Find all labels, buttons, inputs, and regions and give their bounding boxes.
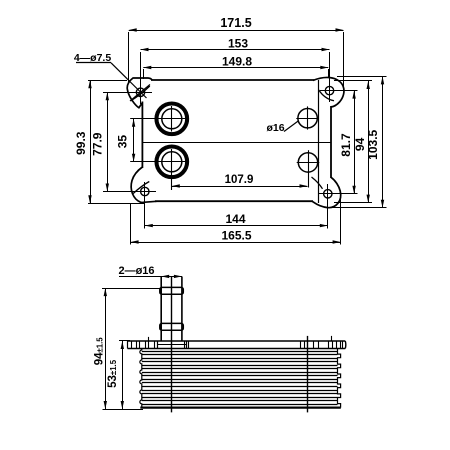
svg-text:149.8: 149.8 (222, 55, 252, 69)
svg-text:153: 153 (228, 37, 248, 51)
svg-text:77.9: 77.9 (90, 132, 104, 156)
svg-text:144: 144 (225, 212, 245, 226)
svg-text:107.9: 107.9 (225, 174, 254, 186)
svg-text:94: 94 (353, 137, 367, 151)
svg-text:35: 35 (115, 135, 129, 149)
svg-text:53±1.5: 53±1.5 (107, 359, 119, 388)
svg-text:165.5: 165.5 (221, 229, 251, 243)
svg-text:171.5: 171.5 (220, 16, 251, 30)
svg-text:81.7: 81.7 (339, 133, 353, 157)
svg-text:2—ø16: 2—ø16 (118, 265, 154, 277)
svg-text:ø16: ø16 (266, 122, 284, 134)
svg-text:103.5: 103.5 (366, 129, 380, 159)
svg-text:94±1.5: 94±1.5 (94, 337, 106, 366)
svg-text:99.3: 99.3 (74, 131, 88, 155)
